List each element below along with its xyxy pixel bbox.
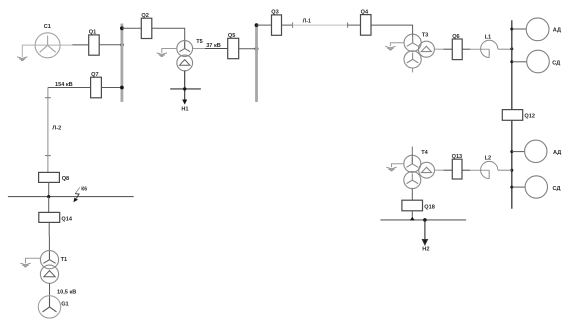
svg-text:Т4: Т4 — [421, 150, 428, 156]
wire bus5 to Q14 — [48, 197, 50, 213]
node bus1-Q2 — [120, 26, 124, 30]
breaker Q2 — [141, 18, 152, 38]
node Q18-bus4 (triangle junction) — [410, 217, 415, 221]
node Q7-bus1 — [120, 86, 124, 90]
wire bus3 to AD2 — [512, 151, 525, 153]
wire Q1 to bus1 — [99, 44, 122, 46]
tick line boundary right — [347, 22, 349, 27]
node Q1-bus1 — [120, 43, 124, 47]
svg-text:G1: G1 — [61, 302, 68, 308]
breaker Q5 — [228, 38, 239, 58]
svg-text:Л-2: Л-2 — [52, 126, 61, 132]
bus 5 (110 kV lower busbar) — [8, 196, 134, 198]
breaker Q3 — [272, 15, 282, 35]
wire T5 to ground — [162, 49, 177, 53]
breaker Q18 — [402, 200, 423, 211]
wire L1 to bus3 — [498, 48, 512, 50]
svg-text:Q8: Q8 — [62, 176, 69, 182]
wire T4 stub top — [411, 147, 413, 164]
bus 1 (154 kV left busbar) — [121, 24, 124, 102]
bus 3 (right 10 kV busbar) — [511, 20, 513, 209]
wire Q3 to line L-1 — [282, 24, 293, 26]
wire bus2 to Q3 — [257, 24, 272, 26]
node Q8-bus5 — [47, 195, 50, 198]
breaker Q1 — [89, 35, 100, 55]
svg-text:10,5 кВ: 10,5 кВ — [57, 290, 76, 296]
svg-text:L2: L2 — [485, 155, 492, 161]
transformer T4 — [404, 155, 435, 188]
wire T4 to Q18 — [411, 189, 413, 201]
ground of T3 — [385, 46, 395, 50]
node bus3-L2 — [510, 169, 513, 172]
line L-1 — [293, 24, 348, 26]
wire 154 kV to Q7 — [48, 87, 91, 89]
wire T3 to Q6 — [434, 48, 443, 50]
svg-text:Q2: Q2 — [141, 13, 148, 19]
wire T1 to G1 — [49, 283, 51, 298]
node bus3-SD2 — [510, 186, 513, 189]
wire Q5 to bus2 — [239, 48, 257, 50]
node bus3-SD1 — [510, 60, 513, 63]
svg-text:Q13: Q13 — [452, 154, 463, 160]
svg-text:Т3: Т3 — [422, 32, 429, 38]
wire Q6 to reactor L1 — [462, 48, 470, 50]
svg-text:Т1: Т1 — [61, 257, 68, 263]
node bus3-AD2 — [510, 150, 513, 153]
svg-text:С1: С1 — [44, 24, 51, 30]
wire T5 to Q5 (37 kV) — [193, 48, 205, 50]
wire Q2 to T5 — [152, 28, 185, 48]
breaker Q6 — [452, 39, 462, 60]
wire Q14 to T1 — [48, 222, 50, 259]
wire Q13 to reactor L2 — [462, 169, 470, 171]
motor AD1 — [526, 18, 549, 41]
short-circuit arrow K6 — [75, 187, 80, 193]
motor AD2 — [525, 140, 547, 162]
breaker Q7 — [91, 77, 102, 98]
wire T4 to Q13 — [435, 169, 444, 171]
load bar H1 — [170, 88, 201, 90]
svg-text:К6: К6 — [81, 186, 87, 192]
tick L-2 bottom — [45, 155, 51, 157]
wire T3 to ground — [390, 43, 404, 47]
motor SD2 — [525, 176, 547, 198]
wire T3 stub bottom — [412, 68, 414, 72]
svg-text:Н1: Н1 — [181, 107, 188, 113]
svg-text:Н2: Н2 — [422, 246, 429, 252]
wire Q7 to bus1 — [101, 87, 122, 89]
breaker Q13 — [452, 159, 462, 179]
ground of T5 — [157, 53, 167, 57]
svg-text:СД: СД — [553, 186, 561, 192]
svg-text:Л-1: Л-1 — [303, 18, 311, 24]
wire Q4 to T3 — [371, 25, 413, 43]
svg-text:Q18: Q18 — [424, 205, 435, 211]
bus 2 (middle busbar) — [255, 24, 258, 103]
ground of T4 — [386, 167, 396, 171]
line L-2 — [47, 88, 49, 173]
arrow H2 — [422, 220, 427, 245]
svg-text:Q4: Q4 — [361, 9, 369, 15]
wire T5 to load bar — [184, 71, 186, 100]
wire L2 to bus3 — [498, 169, 512, 171]
breaker Q12 — [502, 110, 522, 121]
svg-text:Q12: Q12 — [524, 114, 535, 120]
svg-text:37 кВ: 37 кВ — [206, 43, 221, 49]
wire bus1 to Q2 — [122, 27, 141, 29]
wire C1 to ground — [22, 45, 60, 57]
tick line boundary left — [292, 22, 294, 27]
svg-text:Q1: Q1 — [89, 30, 96, 36]
transformer T3 — [404, 34, 434, 68]
svg-text:Q3: Q3 — [271, 10, 278, 16]
node L1-bus3 — [510, 47, 513, 50]
generator G1 — [38, 296, 60, 318]
svg-text:Q6: Q6 — [452, 34, 459, 40]
wire L-1 to Q4 — [348, 24, 361, 26]
svg-text:154 кВ: 154 кВ — [55, 82, 73, 88]
node bus3-AD1 — [510, 28, 513, 31]
breaker Q8 — [39, 172, 60, 182]
svg-text:L1: L1 — [485, 34, 492, 40]
svg-text:АД: АД — [553, 27, 561, 33]
wire C1 to Q1 — [60, 44, 72, 46]
arrow H1 — [182, 100, 187, 105]
wire Q18 to bus4 — [411, 211, 413, 220]
svg-text:Q7: Q7 — [91, 72, 98, 78]
svg-text:Т5: Т5 — [196, 39, 203, 45]
svg-text:АД: АД — [553, 150, 561, 156]
wire bus3 to SD2 — [512, 186, 526, 188]
bus 4 (load busbar H2) — [380, 219, 466, 221]
reactor L1 — [481, 40, 498, 57]
ground of C1 — [17, 57, 27, 61]
node Q5-bus2 — [255, 47, 259, 51]
wire T1 to ground — [26, 258, 41, 263]
node bus4-H2 — [423, 218, 427, 222]
wire bus3 to AD1 — [512, 28, 527, 30]
svg-text:Q5: Q5 — [228, 33, 235, 39]
motor SD1 — [527, 50, 550, 73]
transformer T5 — [177, 41, 193, 71]
ground of T1 — [20, 263, 30, 267]
breaker Q14 — [39, 212, 60, 222]
svg-text:СД: СД — [552, 61, 560, 67]
node H1 bar — [183, 87, 186, 90]
svg-text:Q14: Q14 — [61, 216, 72, 222]
generator C1 — [35, 33, 60, 58]
transformer T1 — [40, 251, 58, 284]
wire T4 to ground — [392, 164, 404, 167]
breaker Q4 — [361, 15, 372, 36]
tick L-2 top — [45, 97, 51, 99]
wire Q8 to bus5 — [48, 182, 50, 196]
reactor L2 — [481, 161, 498, 178]
node bus2-Q3 — [255, 23, 259, 27]
wire bus3 to SD1 — [512, 61, 527, 63]
